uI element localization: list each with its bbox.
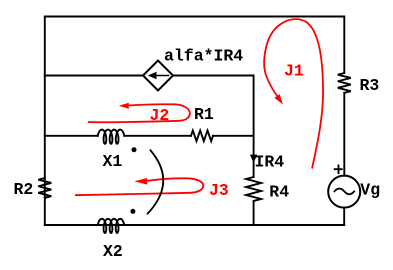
svg-text:R2: R2: [14, 180, 34, 199]
svg-text:Vg: Vg: [360, 180, 380, 199]
svg-text:IR4: IR4: [255, 152, 285, 171]
svg-text:alfa*IR4: alfa*IR4: [164, 46, 243, 65]
svg-text:J2: J2: [150, 106, 170, 125]
svg-text:J1: J1: [284, 61, 304, 80]
svg-text:X2: X2: [103, 242, 123, 261]
svg-text:R4: R4: [269, 182, 289, 201]
svg-text:X1: X1: [103, 152, 123, 171]
svg-text:J3: J3: [209, 181, 229, 200]
svg-text:R3: R3: [360, 76, 380, 95]
svg-text:R1: R1: [194, 105, 214, 124]
